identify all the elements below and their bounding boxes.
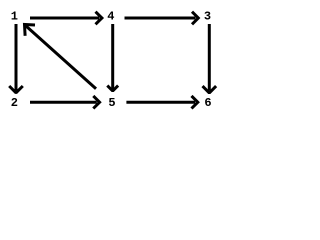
edge 5 to 6 arrowhead (192, 96, 198, 109)
wire edge 1 to 4 shaft (30, 17, 99, 20)
wire edge 1 to 2 shaft (15, 24, 18, 91)
wire edge 2 to 5 shaft (30, 101, 97, 104)
edge 4 to 5 arrowhead (107, 86, 118, 91)
wire edge 4 to 5 shaft (111, 24, 114, 89)
svg-text:3: 3 (204, 10, 211, 24)
svg-text:5: 5 (108, 96, 115, 110)
edge 1 to 2 arrowhead (9, 86, 23, 93)
svg-text:4: 4 (107, 10, 114, 24)
directed graph diagram (0, 0, 237, 119)
wire edge 5 to 6 shaft (126, 101, 195, 104)
wire edge 4 to 3 shaft (125, 17, 196, 20)
edge 1 to 4 arrowhead (96, 12, 102, 25)
wire edge 3 to 6 shaft (208, 24, 211, 91)
svg-text:1: 1 (11, 10, 18, 24)
edge 3 to 6 arrowhead (203, 86, 217, 93)
wire edge 5 to 1 diagonal shaft (26, 26, 96, 89)
edge 5 to 1 arrowhead (25, 25, 36, 36)
svg-text:2: 2 (11, 96, 18, 110)
svg-text:6: 6 (204, 96, 211, 110)
edge 2 to 5 arrowhead (93, 96, 99, 109)
edge 4 to 3 arrowhead (192, 12, 198, 25)
